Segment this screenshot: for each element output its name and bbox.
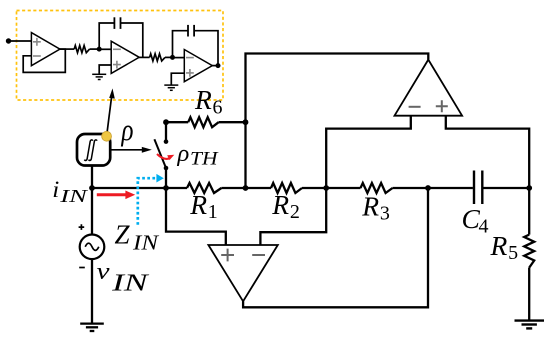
wire node to U3 [173,57,185,59]
node U3 input [170,55,175,60]
resistor Ra (inset) [74,46,89,53]
svg-text:5: 5 [508,242,518,264]
op-amp U4 (comparator, up) [395,60,463,116]
svg-text:6: 6 [213,97,223,119]
wire source to ground [91,259,93,324]
svg-text:R: R [490,230,508,261]
wire U4 - input to node B [326,116,411,188]
svg-text:TH: TH [190,150,219,170]
op-amp U5 (inverting, down) [208,245,277,301]
arrow box to switch [111,149,146,151]
ground (v_IN) [80,322,104,324]
svg-text:3: 3 [380,203,390,225]
probe Z_IN (cyan dotted) [138,178,156,225]
svg-text:i: i [52,177,59,203]
svg-text:1: 1 [208,201,218,223]
wire C-b feedback top/right [194,31,218,66]
switch blade [154,139,166,168]
wire Rb to node [165,56,173,58]
capacitor Ca (inset) [113,17,115,29]
resistor R2 [271,183,302,193]
node R6 right [243,119,249,125]
resistor R6 [188,117,218,127]
wire U5 output to node C [243,188,428,307]
node C (R3-C4, opamp out) [425,185,431,191]
wire node to source [91,188,93,235]
node input (i_IN junction) [89,185,95,191]
node A (R1-R2, comparator leg) [243,185,249,191]
node rho (yellow dot) [102,131,112,141]
svg-text:IN: IN [132,230,159,254]
svg-text:R: R [189,189,207,220]
ground (R5) [515,319,545,321]
wire R2 to node-B [302,187,361,189]
capacitor Cb (inset) [187,25,189,37]
ground U2 [92,73,106,75]
ground U3 [164,84,178,86]
svg-text:R: R [194,84,212,115]
arrow box to inset [107,95,112,136]
svg-text:IN: IN [59,186,89,206]
node U3 output [216,63,221,68]
svg-text:ρ: ρ [177,140,190,167]
wire switch to main node [165,168,167,188]
arrow switch actuation (red) [157,154,170,159]
svg-text:R: R [361,190,379,221]
svg-text:4: 4 [479,216,489,238]
wire node to integrator box [91,165,93,188]
wire R3 to C4 [393,187,473,189]
svg-text:R: R [271,189,289,220]
wire C-a feedback top/right [121,23,143,57]
wire C-a feedback left/top [99,23,114,49]
source v_IN [80,235,105,260]
wire R1 to node-A [221,187,271,189]
wire main node-in to R1 [92,187,187,189]
resistor R5 [524,235,534,268]
wire U1 output [60,48,75,50]
op-amp U3 (integrator 2) [184,50,212,82]
wire node A up / top feedback [246,54,429,189]
svg-text:v: v [97,259,110,285]
wire node to R6 [166,121,188,123]
node B (R2-R3, minus leg) [323,185,329,191]
resistor R3 [361,183,393,193]
capacitor C4 [473,171,475,205]
wire R5 to ground [528,268,530,321]
inset input terminal node [6,38,11,43]
wire U1 feedback [23,49,65,72]
wire R6 to right node [219,121,246,123]
svg-text:IN: IN [111,270,150,297]
op-amp U1 (buffer) [31,33,60,66]
wire Ra to node [90,48,100,50]
wire U2 + to ground [99,65,111,74]
wire U5 - input to node B [260,188,326,245]
wire C4 to node-R [483,187,529,189]
wire U5 + input to switch node [166,188,226,245]
switch contact bottom [164,166,169,171]
wire R6-node to switch [165,122,167,141]
wire U3 output [212,65,218,67]
switch contact top [164,139,169,144]
wire C-b feedback left/top [173,31,189,58]
svg-text:ρ: ρ [121,112,134,147]
wire U3 + to ground [171,73,184,84]
wire node R down [528,188,530,235]
node R (C4-R5, plus leg) [526,185,532,191]
node switch/R1 junction [163,185,169,191]
wire input to U1 [9,40,32,42]
integrator box (double integral) [77,134,110,166]
op-amp U2 (integrator 1) [111,41,139,73]
node U2 input [97,47,102,52]
svg-text:Z: Z [115,220,131,250]
node R6 left [163,119,169,125]
resistor Rb (inset) [150,54,165,61]
wire U2 output [139,56,150,58]
wire U4 + input to node R [446,116,529,188]
svg-text:2: 2 [290,201,300,223]
dashed inset box (expanded double-integrator) [17,11,224,101]
resistor R1 [187,183,221,193]
wire node to U2 [99,48,111,50]
arrow i_IN (red) [97,193,128,196]
